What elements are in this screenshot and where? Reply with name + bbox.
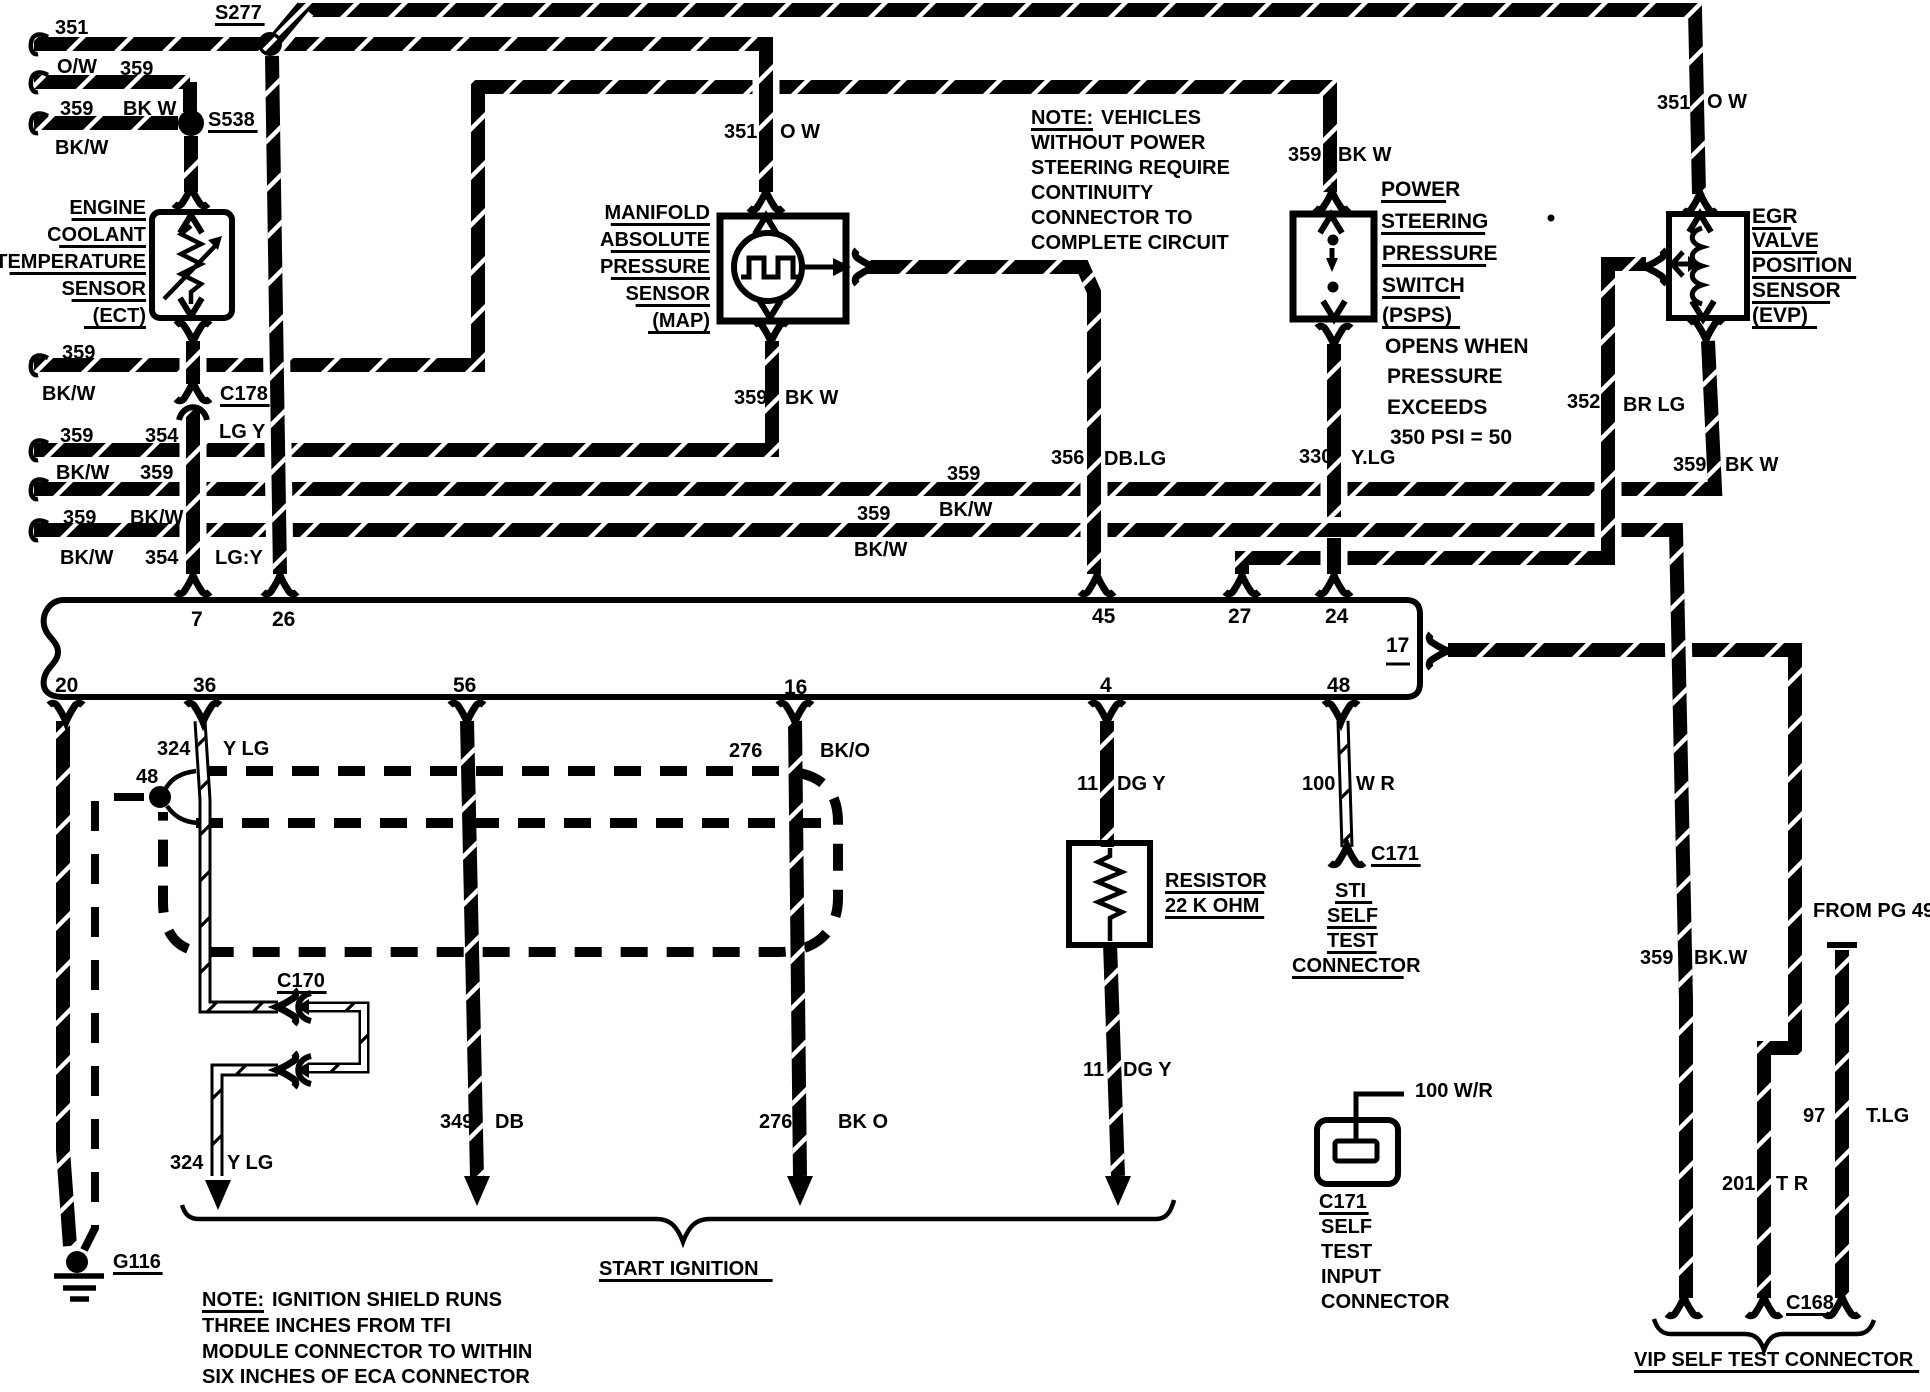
label (PSPS)	[1382, 304, 1460, 329]
svg-text:STI: STI	[1335, 880, 1366, 902]
arrowhead wire 349 to start ignition	[464, 1176, 490, 1206]
MAP transducer circle	[734, 233, 802, 301]
ignition shield inner dashed line	[196, 818, 824, 828]
svg-text:DG Y: DG Y	[1117, 773, 1166, 795]
connector C171 input label	[1319, 1191, 1369, 1215]
wire 352 BR/LG from EVP to pin 27	[1242, 264, 1646, 574]
svg-text:201: 201	[1722, 1173, 1755, 1195]
pin 36	[193, 674, 216, 697]
svg-text:BK/W: BK/W	[55, 137, 108, 159]
label DB	[495, 1111, 524, 1133]
label LG Y	[219, 421, 266, 443]
wire 359 BK/W from ECT up and over to PSPS	[34, 87, 1330, 365]
label START IGNITION	[599, 1258, 773, 1282]
ECT bottom fork	[176, 323, 210, 342]
svg-text:100: 100	[1302, 773, 1335, 795]
svg-text:DB.LG: DB.LG	[1104, 448, 1166, 470]
wire 201 T/R from pin 17	[1448, 650, 1795, 1298]
label 324	[157, 738, 191, 760]
svg-text:276: 276	[729, 740, 762, 762]
pin 27 terminal fork	[1225, 575, 1259, 594]
label T.LG	[1866, 1105, 1909, 1127]
PSPS bottom pin	[1323, 301, 1345, 319]
svg-text:350 PSI = 50: 350 PSI = 50	[1390, 426, 1512, 449]
connector C170 label	[277, 970, 327, 994]
svg-text:TEMPERATURE: TEMPERATURE	[0, 251, 146, 273]
svg-text:BK W: BK W	[785, 387, 838, 409]
node S538 label	[208, 109, 258, 133]
svg-text:Y LG: Y LG	[223, 738, 269, 760]
label SWITCH	[1382, 274, 1465, 299]
label BK/W	[60, 547, 113, 569]
label VALVE	[1752, 229, 1819, 254]
svg-text:EGR: EGR	[1752, 205, 1798, 228]
svg-text:THREE INCHES FROM TFI: THREE INCHES FROM TFI	[202, 1315, 451, 1337]
ground G116 label	[113, 1251, 163, 1275]
svg-text:O W: O W	[780, 121, 820, 143]
svg-text:SENSOR: SENSOR	[1752, 279, 1841, 302]
label 201	[1722, 1173, 1755, 1195]
wire 359 to S538 stub	[34, 82, 190, 112]
pin 20	[55, 674, 78, 697]
ECA connector box	[44, 600, 1420, 697]
MAP output arrow	[802, 258, 851, 276]
wire 97 T/LG from page 49	[1835, 950, 1849, 1298]
wire 100 W/R from pin 48	[1343, 721, 1347, 847]
svg-text:CONNECTOR TO: CONNECTOR TO	[1031, 207, 1193, 229]
resistor value label	[1165, 895, 1264, 919]
label 11	[1077, 773, 1098, 795]
svg-text:WITHOUT POWER: WITHOUT POWER	[1031, 132, 1206, 154]
pin 56	[453, 674, 476, 697]
svg-text:97: 97	[1803, 1105, 1825, 1127]
label WITHOUT POWER	[1031, 132, 1206, 154]
svg-text:PRESSURE: PRESSURE	[1382, 242, 1498, 265]
svg-text:359: 359	[62, 342, 95, 364]
label FROM PG 49	[1813, 900, 1930, 922]
ECT thermistor symbol	[164, 226, 218, 304]
label TEST	[1327, 930, 1378, 954]
label SENSOR (EVP)	[1752, 279, 1841, 304]
PSPS top fork	[1315, 191, 1349, 210]
svg-text:NOTE:: NOTE:	[202, 1289, 264, 1311]
junction node 48 (shield)	[149, 771, 198, 823]
svg-text:STEERING REQUIRE: STEERING REQUIRE	[1031, 157, 1230, 179]
svg-text:POSITION: POSITION	[1752, 254, 1852, 277]
svg-text:BK O: BK O	[838, 1111, 888, 1133]
label 359	[140, 462, 173, 484]
connector C171 STI fork	[1330, 846, 1364, 865]
pin 7 terminal fork	[176, 575, 210, 594]
pin 26	[272, 608, 295, 631]
label 359	[120, 58, 153, 80]
label SELF 2	[1321, 1216, 1372, 1238]
EVP top pin	[1689, 214, 1711, 232]
label 349	[440, 1111, 473, 1133]
pin 17 terminal fork	[1429, 634, 1448, 668]
label 359	[1673, 454, 1706, 476]
label 11 lower	[1083, 1059, 1104, 1081]
svg-text:(EVP): (EVP)	[1752, 304, 1808, 327]
label EGR	[1752, 205, 1798, 230]
svg-text:C171: C171	[1319, 1191, 1367, 1213]
pin 36 terminal fork	[186, 703, 220, 722]
pin 24	[1325, 605, 1349, 628]
label CONNECTOR	[1292, 955, 1421, 979]
label 359	[1640, 947, 1673, 969]
svg-text:359: 359	[1673, 454, 1706, 476]
label BR LG	[1623, 394, 1685, 416]
label MANIFOLD	[604, 202, 710, 226]
svg-text:(ECT): (ECT)	[93, 305, 146, 327]
svg-text:359: 359	[60, 98, 93, 120]
VIP self test connector brace	[1654, 1319, 1874, 1350]
label IGNITION SHIELD RUNS	[272, 1289, 502, 1311]
label POSITION	[1752, 254, 1856, 279]
label 351	[1657, 92, 1690, 114]
MAP top fork	[749, 191, 783, 210]
svg-text:359: 359	[1640, 947, 1673, 969]
pin 48	[1327, 674, 1351, 697]
svg-text:START IGNITION: START IGNITION	[599, 1258, 759, 1280]
label BK/O	[820, 740, 870, 762]
ignition shield (dashed capsule)	[163, 771, 838, 952]
wire 324 Y/LG from pin 36 to C170	[200, 721, 278, 1007]
svg-text:BK/W: BK/W	[854, 539, 907, 561]
svg-text:359: 359	[120, 58, 153, 80]
label PRESSURE	[600, 256, 710, 280]
svg-text:17: 17	[1386, 634, 1409, 657]
wire 359 BK/W long run to right	[34, 523, 1660, 537]
label STEERING REQUIRE	[1031, 157, 1230, 179]
pin 24 terminal fork	[1317, 575, 1351, 594]
connector C178 male cap	[179, 407, 207, 420]
label (EVP)	[1752, 304, 1817, 329]
connector C170 male cap lower	[298, 1056, 311, 1084]
svg-text:48: 48	[1327, 674, 1351, 697]
svg-text:11: 11	[1077, 773, 1098, 795]
svg-text:DG Y: DG Y	[1123, 1059, 1172, 1081]
arrowhead wire 11 to start ignition	[1105, 1176, 1131, 1206]
svg-text:T R: T R	[1776, 1173, 1809, 1195]
label CONTINUITY	[1031, 182, 1154, 204]
label 97	[1803, 1105, 1825, 1127]
start ignition brace	[182, 1200, 1174, 1242]
svg-text:BK/W: BK/W	[130, 507, 183, 529]
wire 330 Y/LG to pin 24 (lower segment)	[1321, 538, 1348, 574]
label VIP SELF TEST CONNECTOR	[1634, 1349, 1919, 1373]
svg-text:BK W: BK W	[1338, 144, 1391, 166]
svg-text:276: 276	[759, 1111, 792, 1133]
arrowhead wire 324 to start ignition	[205, 1180, 231, 1210]
svg-text:20: 20	[55, 674, 78, 697]
svg-text:PRESSURE: PRESSURE	[1387, 365, 1503, 388]
svg-text:S538: S538	[208, 109, 255, 131]
connector C170 fork lower	[277, 1053, 296, 1087]
svg-text:(PSPS): (PSPS)	[1382, 304, 1452, 327]
EVP left fork	[1645, 250, 1664, 284]
svg-text:TEST: TEST	[1327, 930, 1378, 952]
VIP fork 201 (C168)	[1747, 1297, 1781, 1316]
svg-text:11: 11	[1083, 1059, 1104, 1081]
svg-text:16: 16	[784, 676, 807, 699]
MAP square-wave symbol	[741, 258, 802, 277]
label NOTE:	[1031, 107, 1093, 131]
svg-text:359: 359	[734, 387, 767, 409]
PSPS switch contacts	[1326, 235, 1339, 293]
svg-text:7: 7	[191, 608, 203, 631]
wire 349 DB from pin 56	[467, 721, 477, 1176]
svg-text:ENGINE: ENGINE	[69, 197, 146, 219]
ECT bottom pin	[180, 298, 202, 316]
svg-text:G116: G116	[113, 1251, 161, 1273]
MAP top pin	[755, 216, 777, 234]
label 359	[60, 425, 93, 447]
svg-text:ABSOLUTE: ABSOLUTE	[600, 229, 710, 251]
note 2 NOTE:	[202, 1289, 264, 1313]
pin 56 terminal fork	[450, 703, 484, 722]
svg-text:330: 330	[1299, 446, 1332, 468]
label BK/W	[55, 137, 108, 159]
wire 354 LG/Y from ECT to pin 7	[180, 341, 207, 574]
pin 45	[1092, 605, 1116, 628]
stray dot	[1548, 215, 1555, 222]
MAP sensor box	[720, 216, 846, 321]
svg-text:IGNITION SHIELD RUNS: IGNITION SHIELD RUNS	[272, 1289, 502, 1311]
svg-text:45: 45	[1092, 605, 1116, 628]
svg-text:BK/W: BK/W	[42, 383, 95, 405]
label MODULE CONNECTOR TO WITHIN	[202, 1341, 532, 1363]
pin 17 underline tick	[1386, 663, 1410, 666]
ECT top pin	[180, 215, 202, 233]
wire 359 BK/W into S538	[34, 116, 178, 130]
svg-text:24: 24	[1325, 605, 1349, 628]
VIP fork 359	[1667, 1297, 1701, 1316]
label VEHICLES	[1101, 107, 1201, 129]
label O W	[1707, 91, 1747, 113]
label 359	[734, 387, 767, 409]
label 350 PSI = 50	[1390, 426, 1512, 449]
pin 48 terminal fork	[1324, 703, 1358, 722]
label 351	[724, 121, 757, 143]
svg-text:C170: C170	[277, 970, 325, 992]
label BK/W	[939, 499, 992, 521]
label SENSOR	[626, 283, 711, 307]
label OPENS WHEN	[1385, 335, 1529, 358]
svg-text:359: 359	[63, 507, 96, 529]
svg-text:BK W: BK W	[1725, 454, 1778, 476]
label BK.W	[1694, 947, 1747, 969]
svg-text:INPUT: INPUT	[1321, 1266, 1381, 1288]
label (ECT)	[84, 305, 146, 329]
label ABSOLUTE	[600, 229, 710, 253]
svg-text:349: 349	[440, 1111, 473, 1133]
svg-text:CONTINUITY: CONTINUITY	[1031, 182, 1154, 204]
svg-text:BK/W: BK/W	[56, 462, 109, 484]
EVP potentiometer coil	[1692, 228, 1702, 304]
svg-text:SWITCH: SWITCH	[1382, 274, 1465, 297]
connector C171 label	[1371, 843, 1421, 867]
svg-text:FROM PG 49: FROM PG 49	[1813, 900, 1930, 922]
connector C170 blade arrows	[296, 999, 309, 1078]
EVP sensor box	[1669, 214, 1747, 318]
label 100	[1302, 773, 1335, 795]
pin 16 terminal fork	[778, 703, 812, 722]
svg-text:PRESSURE: PRESSURE	[600, 256, 710, 278]
label 359	[947, 463, 980, 485]
svg-text:LG Y: LG Y	[219, 421, 266, 443]
svg-text:SENSOR: SENSOR	[62, 278, 147, 300]
label O/W	[57, 56, 97, 78]
label 276	[729, 740, 762, 762]
label 354	[145, 547, 179, 569]
svg-text:324: 324	[157, 738, 191, 760]
label BK W	[123, 98, 176, 120]
svg-text:351: 351	[724, 121, 757, 143]
svg-text:O/W: O/W	[57, 56, 97, 78]
label STI	[1335, 880, 1372, 904]
svg-text:DB: DB	[495, 1111, 524, 1133]
label SENSOR	[62, 278, 147, 302]
label EXCEEDS	[1387, 396, 1487, 419]
label 359	[1288, 144, 1321, 166]
svg-text:359: 359	[947, 463, 980, 485]
wire 11 DG/Y lower from resistor	[1110, 943, 1118, 1176]
label DG Y lower	[1123, 1059, 1172, 1081]
wire 359 BK/W from MAP bottom	[34, 341, 772, 450]
connector C178 female fork	[176, 382, 210, 401]
svg-text:C168: C168	[1786, 1292, 1834, 1314]
resistor label	[1165, 870, 1267, 894]
label (MAP)	[648, 310, 710, 334]
svg-text:C171: C171	[1371, 843, 1419, 865]
node 48 label	[136, 766, 158, 788]
svg-text:BK W: BK W	[123, 98, 176, 120]
EVP top fork	[1683, 193, 1717, 212]
svg-text:MODULE CONNECTOR TO WITHIN: MODULE CONNECTOR TO WITHIN	[202, 1341, 532, 1363]
EVP bottom fork	[1689, 321, 1723, 340]
svg-text:OPENS WHEN: OPENS WHEN	[1385, 335, 1529, 358]
svg-text:CONNECTOR: CONNECTOR	[1321, 1291, 1450, 1313]
svg-text:BR LG: BR LG	[1623, 394, 1685, 416]
wire 356 DB/LG from MAP to pin 45	[866, 267, 1094, 574]
label DB.LG	[1104, 448, 1166, 470]
label PRESSURE	[1382, 242, 1498, 267]
svg-text:354: 354	[145, 425, 179, 447]
EVP wiper arrow	[1672, 252, 1699, 276]
label 352	[1567, 391, 1600, 413]
pin 27	[1228, 605, 1251, 628]
label ENGINE	[69, 197, 146, 221]
label 359	[60, 98, 93, 120]
wire from pin 20 to ground	[63, 721, 70, 1246]
svg-text:356: 356	[1051, 447, 1084, 469]
pin 7	[191, 608, 203, 631]
svg-text:36: 36	[193, 674, 216, 697]
MAP bottom pin	[759, 300, 781, 318]
dashed shield drain wire to ground	[84, 797, 144, 1250]
label THREE INCHES FROM TFI	[202, 1315, 451, 1337]
svg-text:56: 56	[453, 674, 476, 697]
label SIX INCHES OF ECA CONNECTOR	[202, 1366, 530, 1388]
label BK W	[1725, 454, 1778, 476]
svg-text:Y.LG: Y.LG	[1351, 447, 1395, 469]
svg-text:POWER: POWER	[1381, 178, 1460, 201]
wire end hooks (left margin)	[31, 35, 48, 541]
svg-text:COOLANT: COOLANT	[47, 224, 146, 246]
svg-text:352: 352	[1567, 391, 1600, 413]
label COOLANT	[47, 224, 146, 248]
label 359	[63, 507, 96, 529]
label CONNECTOR 2	[1321, 1291, 1450, 1313]
C171 self test input connector box	[1317, 1094, 1404, 1184]
pin 20 terminal fork	[49, 703, 83, 722]
svg-text:27: 27	[1228, 605, 1251, 628]
junction node S538	[178, 110, 204, 136]
svg-text:STEERING: STEERING	[1381, 210, 1488, 233]
label SELF	[1327, 905, 1378, 929]
ECT top fork	[174, 187, 208, 206]
svg-text:TEST: TEST	[1321, 1241, 1372, 1263]
label 359	[62, 342, 95, 364]
wire 359 BK/W down to VIP connector	[1652, 530, 1686, 1298]
wire 359 BK/W from EVP bottom	[34, 341, 1715, 489]
resistor R1 zigzag	[1098, 848, 1122, 941]
svg-text:MANIFOLD: MANIFOLD	[604, 202, 710, 224]
svg-text:COMPLETE CIRCUIT: COMPLETE CIRCUIT	[1031, 232, 1229, 254]
svg-text:C178: C178	[220, 383, 268, 405]
svg-text:O W: O W	[1707, 91, 1747, 113]
svg-text:351: 351	[55, 17, 88, 39]
junction node S277	[258, 32, 282, 56]
svg-text:VIP SELF TEST CONNECTOR: VIP SELF TEST CONNECTOR	[1634, 1349, 1914, 1371]
label Y LG	[223, 738, 269, 760]
label 351	[55, 17, 88, 39]
svg-text:22 K OHM: 22 K OHM	[1165, 895, 1259, 917]
svg-text:(MAP): (MAP)	[652, 310, 710, 332]
svg-text:26: 26	[272, 608, 295, 631]
label T R	[1776, 1173, 1809, 1195]
svg-text:359: 359	[140, 462, 173, 484]
svg-text:LG:Y: LG:Y	[215, 547, 263, 569]
node S277 label	[215, 2, 265, 26]
wire 351 O/W from S277 to pin 26	[272, 56, 280, 574]
svg-text:SELF: SELF	[1321, 1216, 1372, 1238]
pin 4 terminal fork	[1090, 703, 1124, 722]
label TEMPERATURE	[0, 251, 146, 275]
wire 276 BK/O from pin 16	[795, 721, 800, 1176]
label BK/W	[42, 383, 95, 405]
label 324 lower	[170, 1152, 204, 1174]
MAP output fork	[855, 250, 874, 284]
svg-text:BK/W: BK/W	[939, 499, 992, 521]
svg-text:359: 359	[1288, 144, 1321, 166]
S277 diagonal stub to top wire	[272, 7, 303, 44]
pin 45 terminal fork	[1080, 575, 1114, 594]
label 354	[145, 425, 179, 447]
label 330	[1299, 446, 1332, 468]
label 356	[1051, 447, 1084, 469]
svg-text:RESISTOR: RESISTOR	[1165, 870, 1267, 892]
connector C170 fork upper	[277, 990, 296, 1024]
svg-text:CONNECTOR: CONNECTOR	[1292, 955, 1421, 977]
label LG:Y	[215, 547, 263, 569]
label BK W	[1338, 144, 1391, 166]
ECT sensor box	[152, 212, 232, 318]
label W R	[1356, 773, 1395, 795]
svg-text:48: 48	[136, 766, 158, 788]
label CONNECTOR TO	[1031, 207, 1193, 229]
